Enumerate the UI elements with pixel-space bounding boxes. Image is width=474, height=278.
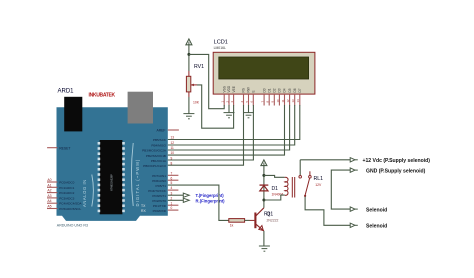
svg-text:VSS: VSS [222, 86, 226, 92]
svg-text:RV1: RV1 [194, 64, 204, 70]
svg-text:D0: D0 [262, 88, 266, 92]
svg-text:D2: D2 [273, 88, 277, 92]
wire RW to ground [248, 105, 250, 113]
svg-text:2N2222: 2N2222 [267, 219, 279, 223]
wire relay common to +12Vdc terminal [300, 159, 350, 161]
svg-text:AREF: AREF [156, 129, 165, 133]
label GND supply [366, 168, 426, 174]
arduino board ARD1 body [57, 107, 168, 221]
ground Q1 [259, 246, 270, 251]
svg-text:10K: 10K [193, 101, 200, 105]
label ANALOG IN [82, 179, 87, 207]
svg-text:D1: D1 [267, 88, 271, 92]
svg-text:Q1: Q1 [267, 212, 274, 218]
RV1 body [186, 71, 190, 97]
svg-text:14: 14 [296, 99, 300, 103]
wire +12V rail [263, 165, 265, 200]
svg-text:TX: TX [141, 204, 146, 208]
label selenoid A [366, 207, 387, 213]
ground RV1 [183, 114, 194, 119]
wire pin10 to LCD D4 [168, 105, 285, 155]
relay contact [299, 160, 311, 197]
relay core bars [291, 177, 293, 198]
LCD body [213, 52, 315, 94]
LCD screen [219, 57, 309, 79]
wire RV1 bottom to ground [188, 97, 190, 114]
label 1N4004 [272, 193, 284, 197]
label RV1 [194, 64, 204, 70]
svg-text:RW: RW [247, 87, 251, 92]
svg-text:D7: D7 [298, 88, 302, 92]
label INKUBATEK [89, 92, 116, 98]
digital pins PD7-PD0 labels [148, 174, 167, 213]
svg-text:PD6/AIN0: PD6/AIN0 [152, 179, 166, 183]
svg-text:RX: RX [141, 209, 146, 213]
svg-text:A1: A1 [47, 183, 51, 187]
brace digital group [131, 143, 133, 206]
svg-text:VDD: VDD [227, 85, 231, 92]
svg-text:PD2/INT0: PD2/INT0 [152, 199, 166, 203]
label D1 [272, 186, 279, 192]
power +5V arrow top [186, 39, 192, 45]
label 12V [315, 183, 322, 187]
label R fingerprint [196, 198, 226, 203]
svg-text:RL1: RL1 [314, 176, 324, 182]
svg-text:INKUBATEK: INKUBATEK [89, 92, 116, 98]
digital pins PB5-PB0 labels [142, 138, 167, 168]
svg-text:D4: D4 [283, 88, 287, 92]
ground VDD [224, 113, 235, 118]
svg-text:PB3/MOSI/OC2A: PB3/MOSI/OC2A [142, 149, 167, 153]
wire relay pole to selenoid B terminal [305, 197, 350, 226]
terminal arrow T fingerprint [168, 193, 189, 197]
transistor Q1 [250, 208, 264, 231]
svg-text:A5: A5 [47, 205, 51, 209]
svg-text:GND (P.Supply selenoid): GND (P.Supply selenoid) [366, 168, 426, 174]
svg-text:ARD1: ARD1 [58, 88, 75, 94]
unconnected digital pin stubs [168, 175, 179, 210]
LCD pin stubs [224, 94, 300, 105]
terminal arrow selenoid B [350, 223, 358, 227]
svg-text:E: E [252, 90, 256, 92]
svg-text:R.(Fingerprint): R.(Fingerprint) [196, 198, 226, 203]
node junction diode bottom [262, 199, 265, 202]
svg-text:PC4/ADC4/SDA: PC4/ADC4/SDA [59, 202, 82, 206]
power +12V arrow [261, 160, 267, 166]
svg-text:PD3/INT1: PD3/INT1 [152, 194, 166, 198]
analog pins A0-A5 [47, 178, 82, 211]
terminal arrow +12Vdc [350, 158, 358, 162]
label R1 value 1k [230, 224, 234, 228]
wire power to RV1 [188, 44, 190, 71]
node junction power RV1 [187, 53, 190, 56]
wire GND terminal to selenoid terminal bracket [331, 170, 350, 209]
microcontroller module ARD1 (Arduino Uno) [47, 88, 179, 227]
pin number labels 13-8 [171, 136, 175, 166]
svg-text:A4: A4 [47, 199, 51, 203]
svg-text:10: 10 [276, 99, 280, 103]
label 10K [193, 101, 200, 105]
label ARD1 [58, 88, 75, 94]
svg-text:13: 13 [291, 99, 295, 103]
label +12Vdc [363, 158, 431, 164]
USB connector [64, 97, 82, 132]
svg-text:LCD1: LCD1 [214, 40, 228, 46]
svg-text:ARDUINO UNO R3: ARDUINO UNO R3 [57, 224, 88, 228]
wire Q1 collector [263, 200, 265, 208]
IC chip ATMEGA328P [98, 140, 125, 214]
node junction diode top [262, 174, 265, 177]
wire pin5 to R1 [168, 185, 229, 220]
svg-text:12V: 12V [315, 183, 322, 187]
relay coil RL1 [264, 175, 295, 200]
terminal arrow R fingerprint [168, 198, 189, 202]
pin RESET [47, 147, 70, 151]
wire pin8 to LCD RS [168, 105, 244, 165]
label ARDUINO UNO R3 [57, 224, 88, 228]
svg-text:12: 12 [286, 99, 290, 103]
svg-text:DIGITAL (~PWM): DIGITAL (~PWM) [135, 159, 140, 207]
svg-text:D5: D5 [288, 88, 292, 92]
diode D1 [260, 185, 269, 191]
LCD1 display [213, 40, 315, 106]
svg-text:PB4/MISO: PB4/MISO [151, 144, 166, 148]
svg-text:PB1/OC1A: PB1/OC1A [151, 159, 167, 163]
terminal arrow selenoid A [350, 207, 358, 211]
label T fingerprint [196, 193, 225, 198]
svg-text:ANALOG IN: ANALOG IN [82, 179, 87, 207]
label LM016L [214, 46, 226, 50]
label R1 and Q1 overlapping [264, 212, 273, 218]
svg-text:PD0/RXD: PD0/RXD [153, 209, 167, 213]
svg-text:PC2/ADC2: PC2/ADC2 [59, 191, 74, 195]
brace analog group [92, 175, 94, 207]
svg-text:ATMEGA328P: ATMEGA328P [110, 174, 114, 191]
svg-text:RS: RS [242, 88, 246, 92]
svg-text:PD5/T1: PD5/T1 [156, 184, 167, 188]
svg-text:D1: D1 [272, 186, 279, 192]
svg-text:Selenoid: Selenoid [366, 224, 387, 230]
svg-text:PB5/SCK: PB5/SCK [153, 138, 167, 142]
svg-text:A3: A3 [47, 194, 51, 198]
label selenoid B [366, 224, 387, 230]
potentiometer RV1 [186, 64, 204, 105]
svg-text:PD1/TXD: PD1/TXD [153, 204, 167, 208]
wire VDD to ground [228, 105, 230, 113]
svg-text:PC3/ADC3: PC3/ADC3 [59, 196, 74, 200]
power jack connector [128, 92, 153, 124]
svg-text:LM016L: LM016L [214, 46, 226, 50]
svg-text:PC0/ADC0: PC0/ADC0 [59, 181, 74, 185]
svg-text:1k: 1k [230, 224, 234, 228]
LCD pin name labels [222, 85, 302, 92]
svg-text:PD7/AIN1: PD7/AIN1 [152, 174, 166, 178]
svg-text:PD4/T0/XCK: PD4/T0/XCK [148, 189, 167, 193]
label 2N2222 [267, 219, 279, 223]
resistor R1 [229, 219, 250, 223]
wire pin11 to LCD D5 [168, 105, 290, 150]
svg-text:D3: D3 [278, 88, 282, 92]
label RL1 [314, 176, 324, 182]
wire +5V to VSS [189, 54, 224, 108]
svg-text:PC1/ADC1: PC1/ADC1 [59, 186, 74, 190]
svg-text:PB2/SS/OC1B: PB2/SS/OC1B [146, 154, 166, 158]
svg-text:11: 11 [281, 99, 285, 102]
wire RV1 wiper to VEE [197, 85, 234, 128]
pin AREF [156, 129, 178, 133]
wire pin13 to LCD D7 [168, 105, 300, 140]
svg-text:A2: A2 [47, 189, 51, 193]
svg-text:RESET: RESET [59, 147, 70, 151]
label DIGITAL PWM [135, 159, 140, 207]
svg-text:PB0/ICP1/CLKO: PB0/ICP1/CLKO [143, 164, 166, 168]
wire Q1 emitter to ground [263, 231, 265, 246]
svg-text:A0: A0 [47, 178, 51, 182]
pin number labels 7-0 [171, 171, 173, 210]
terminal arrow GND supply [350, 168, 358, 172]
svg-text:Selenoid: Selenoid [366, 207, 387, 213]
RV1 wiper arrow [191, 84, 197, 87]
ground RW [243, 113, 254, 118]
svg-text:+12 Vdc (P.Supply selenoid): +12 Vdc (P.Supply selenoid) [363, 158, 431, 164]
svg-text:PC5/ADC5/SCL: PC5/ADC5/SCL [59, 207, 81, 211]
svg-text:VEE: VEE [232, 86, 236, 92]
wire pin12 to LCD D6 [168, 105, 295, 145]
svg-text:D6: D6 [293, 88, 297, 92]
label LCD1 [214, 40, 228, 46]
LCD pin numbers 1-14 [221, 99, 301, 103]
wire pin9 to LCD E [168, 105, 254, 160]
label TX RX [141, 204, 146, 213]
